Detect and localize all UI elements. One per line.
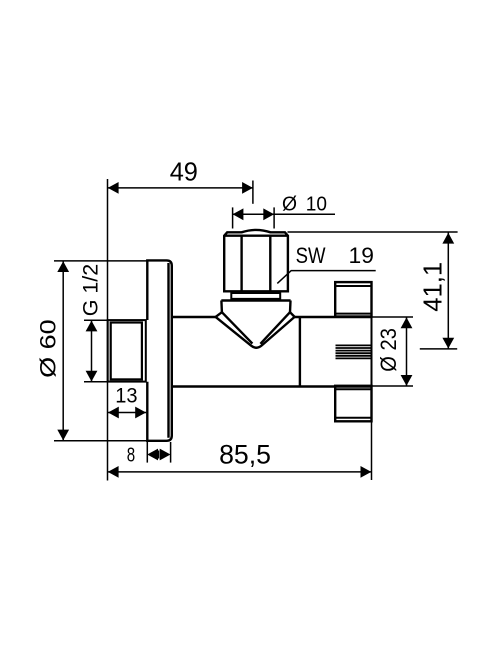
svg-text:85,5: 85,5: [219, 440, 271, 470]
svg-text:10: 10: [306, 194, 327, 216]
svg-text:Ø 23: Ø 23: [376, 328, 401, 372]
svg-text:Ø 60: Ø 60: [35, 319, 60, 378]
svg-text:19: 19: [349, 243, 374, 268]
svg-text:13: 13: [115, 385, 137, 408]
svg-text:SW: SW: [296, 243, 326, 268]
svg-text:Ø: Ø: [282, 194, 297, 216]
svg-text:8: 8: [127, 445, 135, 467]
svg-text:G 1/2: G 1/2: [80, 264, 103, 317]
svg-text:49: 49: [170, 156, 198, 186]
svg-text:41,1: 41,1: [417, 262, 447, 312]
